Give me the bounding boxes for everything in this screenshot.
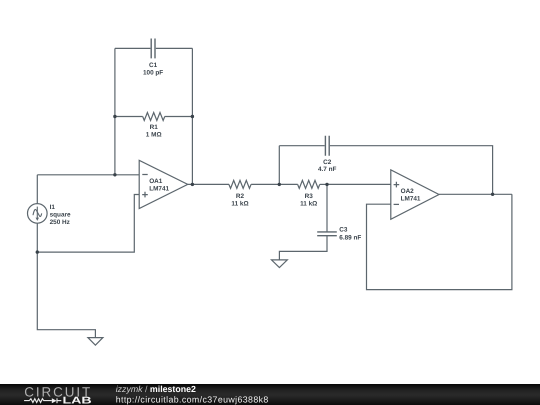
wire node A up to C2 row (278, 146, 280, 185)
svg-text:R3: R3 (305, 193, 314, 200)
svg-text:11 kΩ: 11 kΩ (231, 201, 248, 208)
svg-text:C1: C1 (149, 62, 158, 69)
wire top of loop, right of C1 (156, 47, 193, 49)
footer title text (116, 384, 269, 404)
svg-text:R2: R2 (236, 193, 245, 200)
wire I1 bottom lead (36, 223, 38, 252)
wire node A to R3 (279, 183, 297, 185)
svg-text:4.7 nF: 4.7 nF (318, 166, 337, 173)
CircuitLab logo wordmark (24, 384, 90, 399)
node: OA1 output (191, 183, 194, 186)
wire OA1 output to R2 (188, 183, 229, 185)
wire feedback-loop right vertical (C1/R1 loop to OA1 output) (191, 48, 193, 184)
wire C2 row left segment (279, 145, 324, 147)
svg-text:250 Hz: 250 Hz (50, 219, 70, 226)
svg-text:LM741: LM741 (149, 186, 169, 193)
resistor R2 zigzag (229, 180, 251, 188)
current source I1 waveform glyph and arrow (36, 207, 38, 219)
CircuitLab logo LAB (63, 395, 92, 405)
op-amp OA1 plus sign (142, 192, 148, 198)
svg-text:http://circuitlab.com/c37euwj6: http://circuitlab.com/c37euwj6388k8 (116, 394, 269, 404)
wire R1 row right segment (165, 116, 193, 118)
current source I1 circle (28, 204, 48, 224)
capacitor C2 plates (325, 136, 329, 156)
wire R3 to node B (320, 183, 327, 185)
wire R2 to node A (251, 183, 279, 185)
wire feedback-loop left vertical (C1/R1 loop to inverting node) (114, 48, 116, 174)
wire node B to OA2 non-inverting input (327, 183, 391, 185)
capacitor C1 plates (151, 39, 155, 59)
node: I1 bottom junction (36, 250, 39, 253)
wire top of loop, left of C1 (115, 47, 150, 49)
svg-text:square: square (50, 212, 71, 219)
wire OA2 output (439, 193, 512, 195)
node A: R2/R3/C2 junction (278, 183, 281, 186)
op-amp OA1 minus sign (142, 174, 147, 176)
node: inverting input junction (113, 173, 116, 176)
svg-text:OA1: OA1 (149, 178, 163, 185)
capacitor C3 plates (317, 232, 337, 236)
svg-text:11 kΩ: 11 kΩ (300, 201, 317, 208)
wire C3 bottom to ground (279, 236, 327, 260)
node B: R3/C3/OA2 junction (325, 183, 328, 186)
wire node B down to C3 (326, 184, 328, 231)
svg-text:I1: I1 (50, 204, 56, 211)
svg-text:1 MΩ: 1 MΩ (146, 131, 162, 138)
wire C2 row right segment and down to OA2 output (330, 146, 493, 195)
CircuitLab logo resistor-diode glyph (24, 398, 61, 403)
wire bottom node to OA1 non-inverting input (37, 195, 139, 253)
wire bottom node down to ground (37, 252, 95, 338)
wire R1 row left segment (115, 116, 143, 118)
node: R1 right / loop right (191, 115, 194, 118)
svg-text:100 pF: 100 pF (143, 69, 163, 76)
svg-text:LAB: LAB (63, 395, 92, 405)
node: R1 left / loop left (113, 115, 116, 118)
wire OA2 feedback (output to inverting input) (367, 194, 512, 289)
svg-text:LM741: LM741 (401, 196, 421, 203)
resistor R3 zigzag (298, 180, 320, 188)
svg-text:izzymk / milestone2: izzymk / milestone2 (116, 384, 196, 394)
svg-text:OA2: OA2 (401, 188, 415, 195)
op-amp OA2 triangle (391, 170, 439, 219)
node: C2 return / OA2 output junction (491, 193, 494, 196)
wire OA1 inverting input (from I1 top to op-amp) (37, 174, 139, 176)
wire I1 top lead (36, 175, 38, 204)
ground symbol (left) (88, 338, 103, 346)
ground symbol (under C3) (272, 260, 288, 268)
op-amp OA2 plus sign (394, 182, 400, 188)
svg-text:C3: C3 (339, 226, 348, 233)
op-amp OA1 triangle (139, 160, 188, 208)
svg-text:6.89 nF: 6.89 nF (339, 234, 361, 241)
resistor R1 zigzag (143, 113, 165, 121)
op-amp OA2 minus sign (394, 203, 399, 205)
svg-text:R1: R1 (150, 124, 159, 131)
